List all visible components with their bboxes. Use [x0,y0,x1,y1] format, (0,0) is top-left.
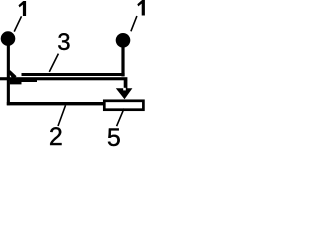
leader line to label 1 (left) [14,16,21,31]
right electrode stem [121,46,124,76]
left electrode stem / left wall of element 2 [7,44,10,105]
leader line to label 1 (right) [131,16,137,31]
leader line to label 5 [117,109,124,127]
label 5 (heater) [107,124,121,153]
label 1 (left electrode) digit [19,1,27,16]
label 2 (plate) [49,123,63,152]
electrode ball 1 (right) [116,33,131,48]
leader line to label 3 [49,54,58,72]
bottom plate of element 2 [7,102,104,105]
label 1 (right electrode) digit [137,0,145,16]
tube lower line [0,77,127,80]
electrode ball 1 (left) [1,31,16,46]
white notch in arrowhead [123,88,126,91]
arrowhead into element 5 [116,88,133,99]
tube upper line 3 [22,73,125,76]
leader line to label 2 [58,105,66,126]
bend joining left stem to lower line [7,70,17,79]
heater box 5 [104,101,143,110]
thick stub on lower line near left stem [10,80,37,84]
label 3 (tube) [57,29,70,57]
arrow shaft into element 5 [124,80,128,89]
